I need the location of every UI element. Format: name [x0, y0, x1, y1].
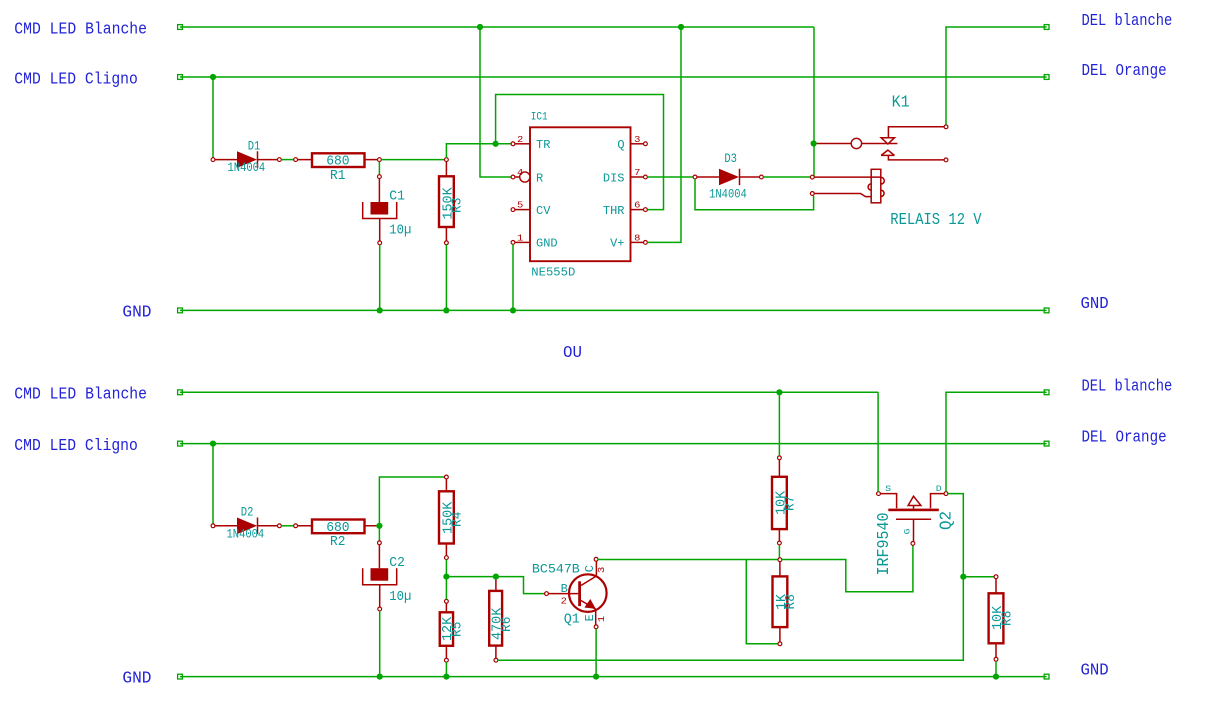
net stub square CMD LED Blanche (bottom left) — [178, 390, 183, 395]
svg-text:4: 4 — [517, 167, 524, 178]
relay K1 coil — [814, 177, 881, 197]
svg-text:K1: K1 — [892, 94, 910, 113]
svg-text:C2: C2 — [389, 555, 405, 571]
wire IC1 GND pin to GND rail — [512, 244, 514, 310]
svg-text:CMD LED Cligno: CMD LED Cligno — [14, 70, 138, 89]
net stub square GND bottom-left — [178, 674, 183, 679]
wire reset riser from top rail to R pin — [480, 29, 511, 178]
junction GND rail / C1 — [377, 307, 383, 313]
junction GND rail / R8b — [993, 674, 999, 680]
net stub square CMD LED Blanche (top left) — [178, 25, 183, 30]
svg-text:IRF9540: IRF9540 — [875, 513, 894, 576]
wire divider node to Q1 base — [446, 577, 544, 594]
wire node down to C2 — [378, 528, 380, 541]
wire collector loop to R8 bottom — [746, 560, 778, 644]
resistor R6 — [495, 577, 497, 591]
pin 8 (V+) of IC1 — [644, 241, 648, 245]
junction drain net / R8b / R6 loop — [960, 574, 966, 580]
junction node A / R6 top — [493, 574, 499, 580]
svg-text:DEL Orange: DEL Orange — [1082, 429, 1167, 448]
junction Cligno rail / D2 branch — [210, 441, 216, 447]
wire R3 top riser to TR — [446, 144, 511, 158]
wire D3 cathode to coil node — [763, 176, 813, 178]
wire THR feedback loop — [496, 95, 664, 210]
svg-text:D1: D1 — [248, 139, 261, 153]
svg-text:6: 6 — [634, 200, 641, 211]
wire R5 bottom to GND rail — [445, 662, 447, 677]
wire drain node to R8b top — [963, 576, 994, 578]
pin-end circle R1 right / node R1-C1-R3 — [378, 158, 382, 162]
pin 4 (R, inverted) of IC1 — [511, 175, 515, 179]
wire V+ pin to top rail — [647, 29, 681, 243]
svg-text:DIS: DIS — [603, 172, 625, 185]
pin 7 (DIS) of IC1 — [644, 175, 648, 179]
wire GND rail (top circuit) — [180, 309, 1047, 311]
svg-text:1N4004: 1N4004 — [709, 188, 747, 202]
wire R6 bottom to Q2 drain net — [498, 578, 964, 660]
svg-text:8: 8 — [634, 232, 641, 243]
wire gate drive loop — [782, 545, 913, 592]
wire D3 anode loop to coil bottom — [695, 179, 814, 210]
svg-text:G: G — [903, 528, 912, 534]
svg-text:5: 5 — [517, 200, 524, 211]
svg-text:10µ: 10µ — [389, 589, 411, 605]
svg-text:D2: D2 — [241, 506, 254, 520]
svg-text:1N4004: 1N4004 — [227, 527, 265, 541]
svg-text:C1: C1 — [389, 189, 405, 205]
svg-text:GND: GND — [1081, 295, 1109, 314]
diode D3 — [693, 175, 697, 179]
svg-text:1N4004: 1N4004 — [228, 161, 266, 175]
junction TR node / THR loop — [493, 141, 499, 147]
svg-text:OU: OU — [563, 344, 582, 363]
svg-text:R: R — [536, 172, 543, 185]
junction bottom rail / R7 riser — [776, 389, 782, 395]
wire +12V rail bottom (CMD LED Blanche net) — [180, 391, 878, 393]
svg-text:R6: R6 — [499, 617, 515, 632]
junction GND rail / Q1 emitter — [593, 674, 599, 680]
diode D1 — [211, 158, 215, 162]
junction GND rail / C2 — [377, 674, 383, 680]
junction top rail / reset riser — [477, 24, 483, 30]
resistor R5 — [445, 599, 449, 603]
net stub square DEL blanche (bottom right) — [1044, 390, 1049, 395]
svg-text:CMD LED Blanche: CMD LED Blanche — [14, 386, 147, 405]
wire R1 out to R3 top — [381, 159, 444, 161]
relay K1 contact set — [814, 143, 852, 145]
svg-text:7: 7 — [634, 167, 640, 178]
junction R2 out / C2 / R4 riser — [376, 523, 382, 529]
wire R4 bottom to divider node — [445, 560, 447, 577]
svg-text:2: 2 — [561, 596, 568, 607]
svg-text:Q2: Q2 — [938, 511, 957, 530]
pin 2 (TR) of IC1 — [511, 142, 515, 146]
pin 3 (Q) of IC1 — [644, 142, 648, 146]
wire node A down to R5 — [445, 577, 447, 600]
wire D2 cathode to R2 — [281, 525, 293, 527]
junction GND rail / R3 — [443, 307, 449, 313]
svg-text:Q: Q — [617, 139, 624, 152]
svg-text:R1: R1 — [330, 168, 345, 184]
pin-end circle relay common — [812, 142, 816, 146]
wire C2 bottom to GND rail — [379, 611, 381, 677]
wire bottom rail down to Q2 source — [877, 392, 879, 491]
svg-text:R5: R5 — [449, 622, 465, 637]
svg-text:1: 1 — [596, 616, 607, 623]
net stub square DEL blanche (top right) — [1044, 25, 1049, 30]
junction divider node A — [443, 574, 449, 580]
junction GND rail / R5 — [443, 674, 449, 680]
resistor R7 — [778, 456, 782, 460]
wire Q1 collector to R8 node — [598, 559, 778, 561]
wire node down to C1 — [378, 162, 380, 175]
svg-text:IC1: IC1 — [531, 111, 548, 123]
svg-text:3: 3 — [596, 566, 607, 573]
svg-text:CMD LED Cligno: CMD LED Cligno — [14, 437, 138, 456]
resistor R4 — [445, 475, 449, 479]
wire DEL blanche from relay contact — [946, 27, 1047, 125]
junction GND rail / IC1 pin1 — [510, 307, 516, 313]
svg-text:R3: R3 — [450, 198, 466, 213]
svg-text:B: B — [561, 583, 568, 596]
wire Cligno rail down to D1 anode — [212, 77, 214, 158]
wire CMD LED Cligno rail (bottom) — [180, 443, 1047, 445]
junction Cligno rail / D1 branch — [210, 74, 216, 80]
wire Q2 drain to R8b node — [948, 494, 963, 575]
svg-text:R2: R2 — [330, 534, 345, 550]
capacitor C1 — [378, 175, 382, 179]
svg-text:TR: TR — [536, 139, 550, 152]
svg-text:RELAIS 12 V: RELAIS 12 V — [890, 211, 982, 230]
resistor R8b (10K right) — [994, 575, 998, 579]
diode D2 — [211, 524, 215, 528]
wire DIS pin to D3 anode — [647, 176, 693, 178]
pin-end circle R2 right / node R2-C2-R4 — [378, 524, 382, 528]
svg-text:DEL Orange: DEL Orange — [1082, 62, 1167, 81]
wire D1 cathode to R1 — [281, 159, 293, 161]
pin 1 (GND) of IC1 — [511, 241, 515, 245]
svg-text:GND: GND — [1081, 662, 1109, 681]
net stub square CMD LED Cligno (bottom left) — [178, 441, 183, 446]
wire R7 bottom to R8 node — [778, 545, 780, 560]
svg-text:1: 1 — [517, 232, 524, 243]
svg-text:R4: R4 — [450, 512, 466, 527]
capacitor C2 — [378, 541, 382, 545]
svg-text:BC547B: BC547B — [532, 562, 580, 576]
wire DEL blanche b / Q2 drain riser — [946, 392, 1047, 491]
wire top rail down to relay node — [813, 27, 815, 177]
svg-text:CMD LED Blanche: CMD LED Blanche — [14, 20, 147, 39]
svg-text:R8: R8 — [999, 611, 1015, 626]
op-amp/timer IC1 NE555D body — [530, 127, 631, 261]
pin 5 (CV) of IC1 — [511, 208, 515, 212]
resistor R3 — [445, 158, 449, 162]
net stub square GND bottom-right — [1044, 674, 1049, 679]
transistor Q1 BC547B — [569, 574, 607, 612]
wire R3 bottom to GND rail — [445, 245, 447, 311]
svg-text:CV: CV — [536, 205, 550, 218]
junction top rail / V+ riser — [678, 24, 684, 30]
wire GND rail (bottom circuit) — [180, 676, 1047, 678]
net stub square DEL Orange (bottom right) — [1044, 441, 1049, 446]
resistor R1 — [294, 158, 298, 162]
svg-text:DEL blanche: DEL blanche — [1082, 12, 1173, 31]
svg-text:Q1: Q1 — [564, 613, 580, 628]
wire node up to R4 top — [379, 477, 444, 524]
wire R8b bottom to GND rail — [995, 661, 997, 676]
svg-text:D3: D3 — [724, 152, 737, 166]
transistor Q2 IRF9540 — [877, 492, 881, 496]
resistor R8 (1K) — [778, 558, 782, 562]
svg-text:GND: GND — [122, 303, 151, 322]
net stub square GND top-left — [178, 308, 183, 313]
wire bottom rail to R7 top — [778, 394, 780, 456]
wire CMD LED Cligno rail (top) — [180, 76, 1047, 78]
wire C1 bottom to GND rail — [379, 245, 381, 311]
net stub square DEL Orange (top right) — [1044, 75, 1049, 80]
junction relay common / +12V riser — [811, 140, 817, 146]
net stub square GND top-right — [1044, 308, 1049, 313]
svg-text:S: S — [885, 485, 891, 494]
svg-text:DEL blanche: DEL blanche — [1082, 377, 1173, 396]
wire +12V rail top (CMD LED Blanche net) — [180, 26, 814, 28]
pin 6 (THR) of IC1 — [644, 208, 648, 212]
svg-text:2: 2 — [517, 134, 524, 145]
svg-text:3: 3 — [634, 134, 641, 145]
wire Q1 emitter to GND rail — [595, 629, 597, 677]
svg-text:THR: THR — [603, 205, 625, 218]
svg-text:V+: V+ — [610, 238, 624, 251]
svg-text:GND: GND — [536, 238, 558, 251]
wire Cligno rail down to D2 anode — [212, 444, 214, 524]
svg-text:NE555D: NE555D — [531, 267, 575, 280]
svg-text:R7: R7 — [783, 496, 799, 511]
svg-text:R8: R8 — [783, 594, 799, 609]
net stub square CMD LED Cligno (left) — [178, 75, 183, 80]
svg-text:D: D — [936, 485, 942, 494]
resistor R2 — [294, 524, 298, 528]
svg-text:GND: GND — [122, 670, 151, 689]
svg-text:10µ: 10µ — [389, 223, 411, 239]
